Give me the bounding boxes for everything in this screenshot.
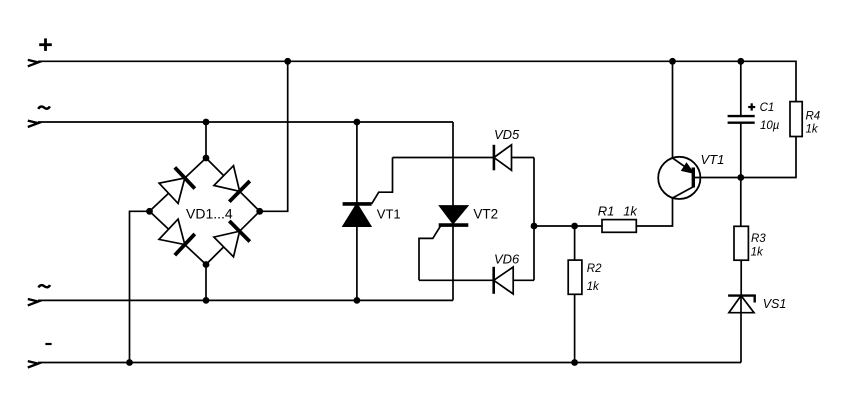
node R2 top junction bbox=[571, 223, 578, 230]
node bridge plus junction bbox=[284, 58, 291, 65]
wire bridge top drop bbox=[205, 122, 207, 158]
label ~ terminal lower bbox=[39, 285, 50, 288]
diode VD5 bbox=[393, 145, 535, 171]
label - terminal bbox=[45, 343, 51, 345]
diode VD4 (bridge bottom-right edge) bbox=[206, 211, 260, 264]
diode VD1 (bridge left-top edge) bbox=[150, 158, 207, 211]
terminal arrow ~ upper bbox=[28, 121, 38, 127]
diode VD2 (bridge top-right edge) bbox=[206, 158, 260, 211]
wire gate node to R1 bbox=[534, 225, 602, 227]
thyristor VT2 bbox=[419, 122, 468, 300]
svg-text:VT1: VT1 bbox=[701, 152, 725, 167]
zener diode VS1 bbox=[728, 296, 755, 363]
node VD loop junction bbox=[531, 223, 538, 230]
svg-text:1k: 1k bbox=[587, 281, 600, 293]
svg-text:VT1: VT1 bbox=[377, 207, 401, 222]
node R2 bottom junction bbox=[571, 359, 578, 366]
resistor R2 bbox=[568, 226, 582, 363]
capacitor C1 bbox=[728, 61, 755, 177]
resistor R3 bbox=[734, 178, 748, 296]
wire + rail bbox=[38, 61, 796, 101]
svg-text:1k: 1k bbox=[751, 247, 764, 259]
wire - rail bbox=[38, 362, 741, 364]
wire right loop vertical bbox=[533, 158, 535, 281]
svg-text:R1: R1 bbox=[598, 204, 615, 219]
node bridge minus junction bbox=[126, 359, 133, 366]
svg-text:VT2: VT2 bbox=[473, 207, 498, 222]
svg-text:1k: 1k bbox=[806, 124, 819, 136]
node bridge top rail junction bbox=[203, 119, 210, 126]
svg-text:R3: R3 bbox=[751, 233, 766, 245]
svg-text:R2: R2 bbox=[587, 263, 602, 275]
resistor R4 bbox=[790, 102, 802, 137]
node bridge bottom rail junction bbox=[203, 297, 210, 304]
node collector junction bbox=[669, 58, 676, 65]
node bridge right vertex bbox=[256, 208, 263, 215]
svg-text:1k: 1k bbox=[623, 204, 638, 219]
resistor R1 bbox=[602, 220, 636, 233]
svg-text:C1: C1 bbox=[760, 102, 775, 114]
svg-text:10µ: 10µ bbox=[760, 120, 780, 132]
svg-text:VS1: VS1 bbox=[763, 297, 787, 311]
diode VD3 (bridge left-bottom edge) bbox=[150, 211, 207, 264]
wire R1 to transistor emitter bbox=[636, 198, 672, 226]
svg-text:VD6: VD6 bbox=[494, 252, 520, 267]
node base C1 junction bbox=[737, 174, 744, 181]
label + terminal bbox=[39, 38, 52, 51]
thyristor VT1 bbox=[343, 122, 393, 300]
wire bridge bottom drop bbox=[205, 265, 207, 301]
node bridge bottom vertex bbox=[203, 261, 210, 268]
node VT1 cathode rail junction bbox=[354, 297, 361, 304]
transistor VT1 bbox=[658, 61, 796, 199]
wire ~ rail upper bbox=[38, 121, 453, 123]
wire bridge left to minus rail bbox=[130, 211, 150, 362]
node VT1 anode rail junction bbox=[354, 119, 361, 126]
label C1 polarity plus bbox=[748, 103, 755, 110]
node C1 top junction bbox=[737, 58, 744, 65]
svg-text:R4: R4 bbox=[806, 110, 821, 122]
node bridge top vertex bbox=[203, 155, 210, 162]
svg-text:VD5: VD5 bbox=[494, 127, 520, 142]
terminal arrow + input bbox=[28, 60, 38, 66]
svg-text:VD1...4: VD1...4 bbox=[186, 205, 233, 221]
node bridge left vertex bbox=[146, 208, 153, 215]
label ~ terminal upper bbox=[38, 106, 49, 109]
wire ~ rail lower bbox=[38, 299, 453, 301]
terminal arrow ~ lower bbox=[28, 299, 38, 305]
wire bridge right to plus rail bbox=[260, 61, 288, 211]
diode VD6 bbox=[419, 267, 534, 294]
terminal arrow - input bbox=[28, 361, 38, 367]
